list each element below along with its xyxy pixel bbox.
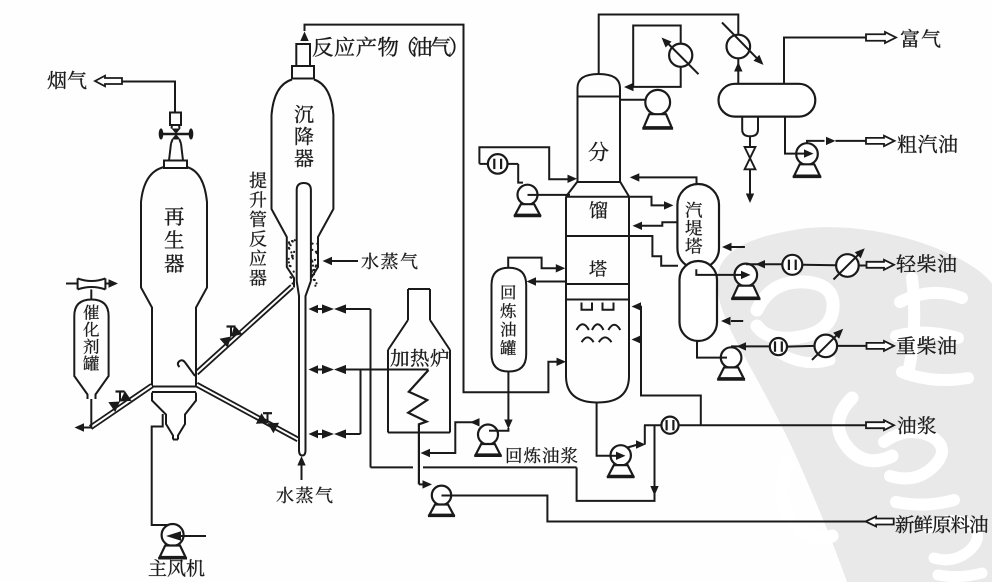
wire tower bottoms to pump C: [597, 403, 618, 456]
flue gas outlet hollow arrow: [95, 76, 122, 87]
fractionator tray internals: [582, 303, 593, 310]
wire rich gas line: [784, 38, 866, 84]
label 粗汽油: [898, 135, 958, 153]
pump main air blower 主风机: [162, 524, 184, 546]
wire drum bottom to gasoline pump: [785, 117, 796, 154]
wire recycle slurry header: [371, 466, 414, 468]
wire pump C discharge: [628, 445, 638, 448]
valve riser inlet row1: [309, 305, 319, 313]
pipe riser reactor tube: [297, 183, 311, 281]
drum boot: [742, 117, 758, 137]
wire reaction product line to fractionator: [300, 32, 308, 42]
wire recycle tank bottom to pump A: [507, 372, 509, 422]
column fractionator 分馏塔: [578, 74, 621, 182]
exchanger heavy diesel cooler: [815, 335, 838, 358]
exchanger overhead condenser: [727, 35, 751, 59]
wire stripper return to tower: [641, 222, 678, 226]
wire feed riser from recycle line: [370, 309, 372, 467]
wire tower tray to reflux pump: [620, 99, 646, 101]
fresh feed hollow arrow: [866, 517, 894, 527]
valve slide-valve on flue gas line: [170, 113, 181, 126]
valve riser inlet row2: [309, 365, 319, 373]
wire branch to row3: [360, 370, 362, 435]
label 轻柴油: [897, 254, 957, 272]
pump top pumparound: [518, 185, 538, 205]
valve riser inlet row3: [309, 430, 319, 438]
pipe regenerated catalyst line with valve: [196, 386, 297, 441]
wire slurry product line: [644, 424, 866, 426]
label 塔: [589, 260, 606, 276]
vessel stripper lower: [680, 261, 718, 341]
wire recycle tank overhead to tower: [508, 258, 556, 269]
vessel catalyst tank 催化剂罐: [74, 300, 108, 400]
label 反应产物（油气）: [313, 37, 456, 57]
pump reflux: [645, 90, 670, 115]
exchanger light diesel cooler: [836, 254, 859, 277]
pump recycle slurry: [478, 425, 498, 445]
slurry hollow arrow: [866, 420, 894, 430]
wire pump A discharge to furnace line: [470, 418, 480, 426]
label 催化剂罐: [83, 305, 99, 371]
wire stripper upper bottoms to pump: [696, 269, 735, 275]
pipe spent catalyst standpipe with valve: [195, 285, 291, 372]
pump light diesel: [735, 264, 758, 287]
exchanger reflux cooler: [669, 44, 692, 67]
label 主风机: [149, 559, 205, 576]
label 沉降器: [295, 105, 314, 167]
wire stripper lower bottoms to pump: [697, 341, 721, 357]
nozzle settler top: [292, 44, 314, 79]
label 重柴油: [897, 336, 956, 354]
wire pump D discharge to tower: [537, 194, 570, 196]
meter on heavy diesel line: [770, 338, 787, 355]
wire top pumparound circuit: [479, 147, 570, 179]
wire stripper overhead to tower: [635, 177, 697, 184]
wire catalyst tank drain: [80, 399, 91, 428]
heavy diesel hollow arrow: [867, 341, 895, 351]
wire condenser to reflux drum: [737, 58, 739, 84]
meter on light diesel line: [782, 255, 802, 275]
wire steam stub into stripper lower: [731, 320, 743, 322]
vessel settler 沉降器: [272, 80, 295, 288]
pump heavy diesel: [721, 347, 742, 368]
label 加热炉: [391, 349, 449, 367]
pump crude gasoline: [796, 143, 818, 165]
label 回炼油浆: [507, 447, 578, 463]
pump fresh feed: [432, 486, 451, 505]
wire flue gas line: [122, 82, 175, 113]
label 汽堤塔: [685, 202, 702, 254]
meter on top pumparound: [488, 154, 508, 174]
pump bottoms slurry: [611, 445, 631, 465]
valve boot drain: [749, 136, 751, 147]
wire tower draw to stripper top: [630, 197, 666, 206]
wire reflux loop to tower top: [631, 26, 681, 87]
internal pipe hook in regenerator: [178, 360, 195, 376]
wire furnace column to pump B: [419, 483, 425, 485]
wire steam nozzle to settler cone: [331, 260, 358, 262]
crude gasoline hollow arrow: [866, 136, 895, 147]
vessel stripper upper 汽堤塔: [677, 184, 719, 269]
venturi ejector above catalyst tank: [78, 278, 106, 289]
vessel recycle oil tank 回炼油罐: [492, 268, 527, 372]
label 馏: [590, 201, 608, 219]
pipe catalyst addition line with valve: [92, 387, 154, 429]
furnace 加热炉 outline: [388, 289, 450, 433]
watermark gray stamp: [717, 227, 992, 582]
wire gasoline pump discharge: [807, 141, 825, 144]
label 水蒸气(lower): [277, 487, 333, 504]
wire steam stub into stripper upper: [731, 246, 745, 248]
label 水蒸气(upper): [362, 253, 418, 270]
light diesel hollow arrow: [867, 260, 895, 270]
vessel regenerator 再生器: [141, 167, 164, 386]
wire tray draw to stripper: [629, 236, 678, 266]
label 再生器: [165, 207, 184, 272]
drum reflux accumulator: [719, 84, 816, 117]
wire pumparound branches into tower: [638, 306, 641, 308]
meter on slurry line: [661, 417, 678, 434]
label 烟气: [48, 71, 87, 89]
label 富气: [901, 29, 940, 48]
wire tower draw to recycle tank: [535, 281, 566, 283]
wire pump B discharge to feed header: [451, 496, 866, 522]
wire heavy diesel rundown: [731, 345, 770, 347]
catalyst dots in settler cone: [290, 244, 292, 246]
wire steam inlet to riser bottom: [301, 463, 303, 480]
wire main air line: [152, 414, 170, 525]
label 新鲜原料油: [896, 515, 988, 533]
label 油浆: [898, 416, 936, 434]
furnace coil zigzag: [408, 370, 428, 484]
label 提升管反应器: [250, 172, 267, 286]
wire light diesel rundown: [746, 263, 782, 265]
wire overhead vapor line: [599, 15, 739, 75]
label 分: [589, 142, 609, 161]
label 回炼油罐: [500, 285, 516, 355]
rich gas hollow arrow: [866, 32, 896, 43]
